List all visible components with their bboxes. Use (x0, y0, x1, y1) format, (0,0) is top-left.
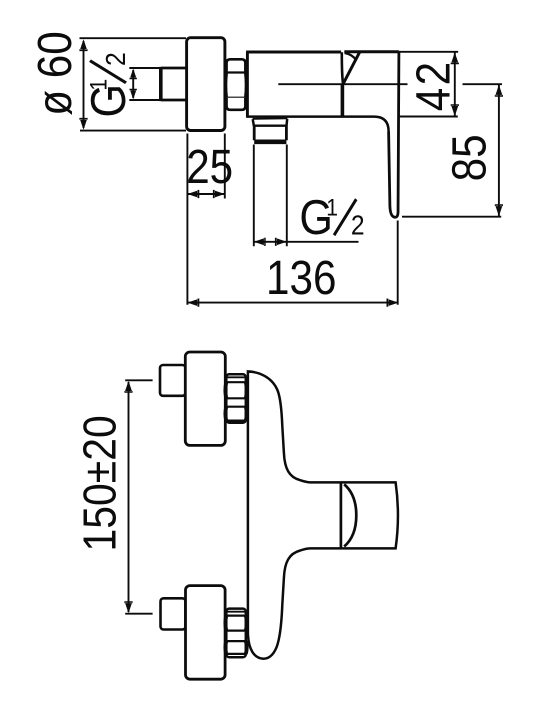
extension lines outlet G1/2 (254, 145, 287, 247)
extension line 150 bottom (125, 613, 152, 615)
arrow 25 right (213, 190, 225, 198)
handle blade outline (389, 52, 399, 217)
arrow 85 down (495, 204, 503, 216)
pipe shoulder thick line (159, 67, 163, 101)
arrow 150 down (124, 601, 132, 613)
extension line 42 bottom (399, 116, 458, 118)
arrow 25 left (187, 190, 199, 198)
label 136 (266, 251, 336, 305)
mixer body bottom edge with fillet to handle blade (246, 117, 389, 132)
arrow 85 up (495, 85, 503, 97)
double arrow G1/2 thread (132, 70, 134, 98)
extension line right for 136 (397, 221, 399, 305)
threaded pipe section (129, 68, 161, 100)
arrow ø60 up (79, 39, 87, 51)
outlet collar sides (253, 119, 288, 126)
extension line 42 top (399, 51, 458, 53)
dimension line 25 (187, 193, 224, 195)
label 25 (186, 139, 233, 193)
bottom supply pipe (top view) (161, 598, 186, 629)
bottom union nut (top view) (225, 609, 246, 658)
top supply pipe (top view) (160, 365, 185, 396)
label ø 60 (27, 31, 81, 116)
outlet collar top line (253, 117, 288, 120)
svg-text:1: 1 (326, 194, 338, 221)
svg-text:25: 25 (186, 139, 233, 193)
union nut bottom cap (227, 98, 246, 110)
svg-text:85: 85 (442, 134, 496, 181)
handle front diagonal (343, 52, 359, 83)
wall flange (side view) (187, 38, 225, 131)
extension line 85 bottom (402, 216, 501, 218)
handle/body joint thick line (341, 84, 345, 117)
handle top edge (344, 50, 399, 53)
svg-text:2: 2 (351, 209, 365, 241)
dimension line 136 (187, 302, 398, 304)
dimension line 42 (454, 52, 456, 116)
top wall flange (top view) (185, 352, 225, 445)
pipe nipple (161, 68, 186, 100)
handle pivot vertical (342, 52, 343, 84)
svg-text:1: 1 (85, 79, 112, 91)
svg-text:136: 136 (266, 251, 336, 305)
dimension line ø60 (83, 41, 85, 128)
label G1/2 left (rotated) (80, 52, 135, 117)
union nut (side view) top cap (227, 59, 246, 72)
handle dome arc (top view) (344, 484, 356, 546)
label 42 (406, 62, 460, 111)
body silhouette (top view) (248, 371, 398, 658)
svg-text:150±20: 150±20 (74, 415, 126, 551)
arrow 42 up (451, 52, 459, 64)
top union nut (top view) (225, 374, 246, 423)
svg-text:2: 2 (100, 52, 132, 66)
extension line left for 25/136 (186, 134, 188, 305)
union nut line lower (226, 97, 246, 99)
mixer body top edge (246, 51, 341, 54)
outlet body sides (254, 126, 286, 141)
extension line dim ø60 bottom (80, 130, 186, 132)
handle pivot arc (345, 53, 357, 60)
outlet collar bottom line (253, 124, 287, 126)
bottom wall flange (top view) (186, 586, 226, 680)
outlet end dark band (254, 140, 286, 145)
centerline (278, 83, 502, 85)
union nut line upper (226, 71, 246, 73)
arrow 136 left (187, 299, 199, 307)
label G1/2 outlet (299, 189, 364, 244)
handle corner sliver (398, 53, 400, 59)
arrow ø60 down (79, 118, 87, 130)
arrow 150 up (124, 381, 132, 393)
arrow G1/2 right (275, 238, 287, 246)
arrow G1/2 left (254, 238, 266, 246)
label 42 background (408, 55, 463, 113)
dimension line 85 (498, 84, 500, 216)
label 150±20 (74, 415, 126, 551)
label 85 (442, 134, 496, 181)
arrow 42 down (451, 104, 459, 116)
dimension line outlet G1/2 with leader (254, 241, 359, 243)
handle base face line (top view) (340, 483, 343, 548)
union nut barrel sides (224, 73, 228, 98)
svg-text:ø 60: ø 60 (27, 31, 81, 116)
extension line 150 top (125, 379, 152, 381)
extension line right for 25 (224, 134, 226, 199)
mixer body left edge (246, 52, 249, 117)
extension line dim ø60 top (80, 37, 187, 39)
dimension line 150±20 (128, 382, 130, 612)
arrow 136 right (387, 299, 399, 307)
